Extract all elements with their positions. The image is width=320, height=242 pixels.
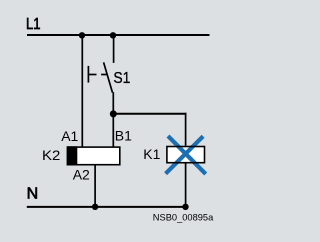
junction node below S1 bbox=[110, 110, 117, 117]
wire N rail bbox=[27, 206, 187, 208]
pushbutton actuator of S1 (T-bar and dashed link) bbox=[88, 66, 106, 83]
svg-text:L1: L1 bbox=[26, 16, 41, 33]
wire branch down to K1 coil bbox=[185, 113, 187, 147]
wire from K1 down to N rail bbox=[185, 164, 187, 208]
wire lower contact of S1 down to K2 B1 bbox=[112, 92, 114, 147]
svg-text:K2: K2 bbox=[42, 147, 61, 163]
relay coil K1 (white body) bbox=[166, 146, 205, 164]
junction on L1 rail (left, to K2 A1) bbox=[79, 32, 85, 38]
wire from K2 A2 down to N rail bbox=[94, 165, 96, 207]
svg-text:B1: B1 bbox=[115, 128, 132, 144]
wire upper contact of S1 bbox=[113, 35, 115, 63]
junction on N rail (from K2 A2) bbox=[92, 204, 98, 210]
svg-text:A2: A2 bbox=[73, 167, 90, 183]
wire branch from junction to K1 (horizontal) bbox=[113, 113, 186, 115]
junction on L1 rail (right, to S1) bbox=[110, 32, 116, 38]
wire L1 rail bbox=[27, 34, 210, 36]
wire from L1 rail down to K2 A1 bbox=[81, 35, 83, 147]
relay coil K2 (latching, box with black section) bbox=[67, 146, 120, 165]
svg-text:K1: K1 bbox=[143, 146, 160, 162]
blue cross over K1 (de-energized mark) bbox=[166, 136, 206, 174]
svg-text:NSB0_00895a: NSB0_00895a bbox=[153, 213, 214, 223]
junction on N rail (from K1) bbox=[182, 204, 188, 210]
svg-text:S1: S1 bbox=[113, 70, 130, 87]
svg-text:A1: A1 bbox=[61, 128, 78, 144]
svg-text:N: N bbox=[27, 186, 39, 203]
relay coil K1 (border, drawn over cross) bbox=[167, 147, 205, 163]
switch S1 blade bbox=[104, 62, 113, 92]
